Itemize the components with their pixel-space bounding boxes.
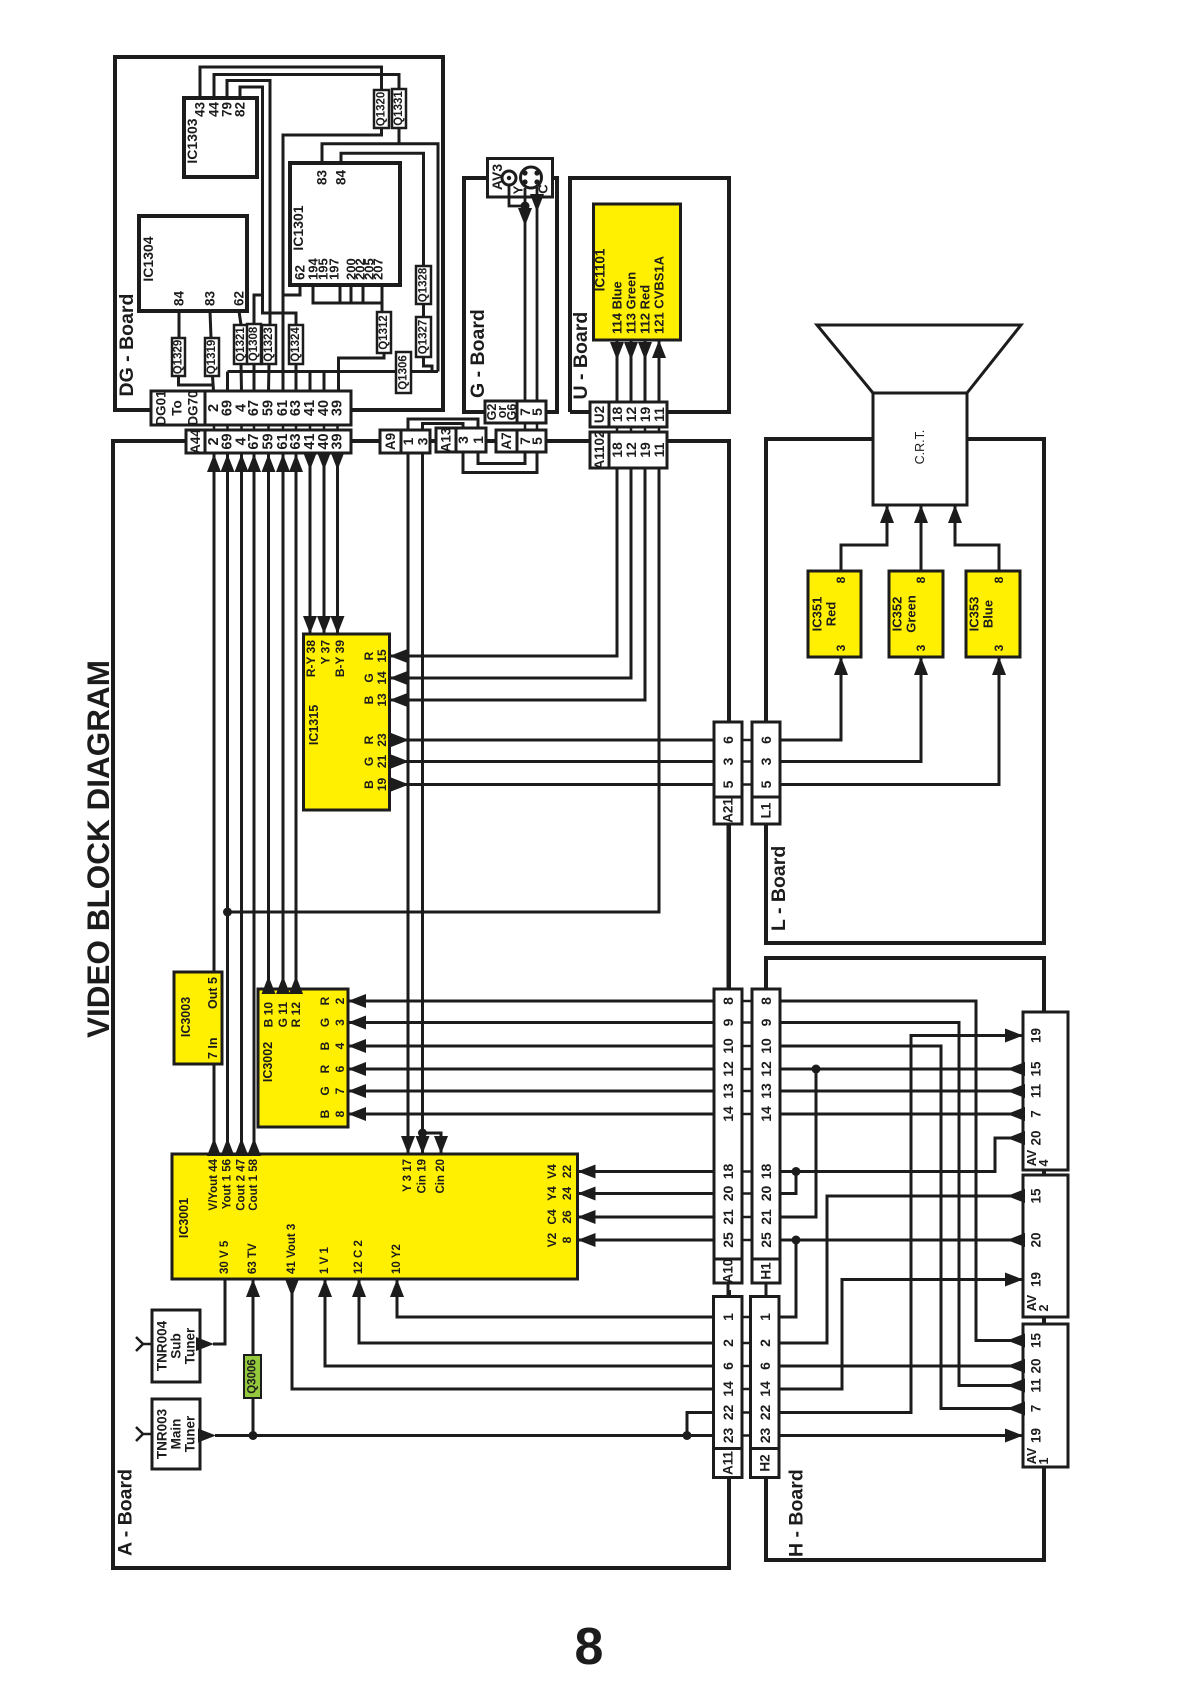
arrow down IC1101.112 <box>638 342 652 360</box>
wire A9.1-IC3001.17 <box>407 453 410 1154</box>
wire Cin20 branch <box>423 1133 442 1154</box>
transistor Q1308 <box>247 324 261 364</box>
svg-text:3: 3 <box>834 644 848 651</box>
arrow into IC353.3 <box>992 657 1006 675</box>
arrow into IC3001 pin 26 <box>578 1210 596 1224</box>
svg-text:G: G <box>318 1086 332 1095</box>
svg-text:6: 6 <box>720 736 736 744</box>
arrow into CRT green <box>914 505 928 523</box>
arrow into IC3001.17 <box>401 1136 415 1154</box>
wire row23 junction to A11.23 <box>253 1434 714 1437</box>
svg-text:3: 3 <box>758 757 774 765</box>
wire Q3006 to TNR junction <box>252 1398 255 1436</box>
svg-text:To: To <box>170 400 185 416</box>
connector A10 label box <box>714 1259 742 1283</box>
svg-text:6: 6 <box>757 1362 773 1370</box>
arrow into IC1315.13 <box>390 693 408 707</box>
svg-text:22: 22 <box>757 1405 773 1421</box>
wire IC3001.C2 to A11.2 <box>359 1279 714 1343</box>
svg-text:IC1101: IC1101 <box>593 248 608 291</box>
svg-text:A9: A9 <box>383 433 398 450</box>
svg-text:G 11: G 11 <box>276 1002 290 1028</box>
connector A1102 label box <box>590 432 609 468</box>
wire A10.8-IC3002 row <box>348 1113 714 1116</box>
wire H1-H2 column <box>765 1283 768 1297</box>
wire A21-L1 stubs <box>742 739 752 742</box>
svg-text:25: 25 <box>720 1232 736 1248</box>
wire H1.14 to AV4.7 <box>780 1113 1023 1116</box>
arrow out IC1315.21 <box>391 755 409 769</box>
arrow down out IC3001.41 <box>285 1279 299 1297</box>
svg-text:H - Board: H - Board <box>786 1469 808 1557</box>
wire DG01-A44 pin stubs <box>213 425 216 430</box>
arrow up out IC3002.11 <box>276 976 290 994</box>
svg-text:G: G <box>362 757 376 766</box>
wire L1.3 to IC352.3 <box>780 657 921 762</box>
ic IC353 Blue <box>966 571 1020 657</box>
wire A10.2-IC3002 row <box>348 1000 714 1003</box>
wire IC1303.82 to Q1308 <box>240 87 263 324</box>
svg-text:5: 5 <box>529 408 545 416</box>
svg-text:R: R <box>362 651 376 660</box>
ic IC1301 <box>290 163 400 285</box>
svg-text:3: 3 <box>992 644 1006 651</box>
svg-text:6: 6 <box>758 736 774 744</box>
arrow down AV3 C <box>530 194 544 212</box>
svg-text:Q1327: Q1327 <box>418 320 430 355</box>
svg-text:A13: A13 <box>439 427 454 452</box>
svg-text:Q1331: Q1331 <box>393 91 405 126</box>
svg-text:B-Y 39: B-Y 39 <box>333 640 347 677</box>
svg-text:R: R <box>362 735 376 744</box>
svg-text:113 Green: 113 Green <box>624 272 639 334</box>
wire H1.9 to AV1.11 <box>780 1023 1023 1386</box>
svg-text:Y 3 17: Y 3 17 <box>402 1159 414 1192</box>
arrow up into A44 at x254 <box>247 454 261 472</box>
svg-text:Out 5: Out 5 <box>206 977 220 1009</box>
svg-text:62: 62 <box>232 291 247 306</box>
connector A21 label box <box>714 797 742 824</box>
tuner TNR003 <box>152 1399 200 1469</box>
svg-text:IC1303: IC1303 <box>184 118 200 163</box>
svg-text:IC1304: IC1304 <box>140 236 156 281</box>
svg-text:C4: C4 <box>545 1209 559 1225</box>
wire IC1101.112-U2.19 <box>644 340 647 402</box>
svg-text:7: 7 <box>1029 1110 1044 1118</box>
wire A10.3-IC3002 row <box>348 1021 714 1024</box>
connector L1 pins box <box>752 722 780 797</box>
wire A10-IC3001 row 8 <box>578 1239 715 1242</box>
svg-text:43: 43 <box>193 102 208 118</box>
wire A44.69-IC3001.56 with CVBS tap <box>226 453 229 1154</box>
svg-text:41 Vout 3: 41 Vout 3 <box>286 1224 298 1274</box>
svg-text:30 V 5: 30 V 5 <box>219 1240 231 1274</box>
connector U2 pins box <box>609 402 667 427</box>
svg-text:20: 20 <box>1029 1358 1044 1373</box>
svg-text:9: 9 <box>758 1018 774 1026</box>
svg-text:Red: Red <box>824 602 839 627</box>
svg-text:15: 15 <box>1029 1333 1044 1349</box>
arrow down from A44 at x324 <box>317 452 331 470</box>
arrow out AV2.20 <box>1007 1233 1025 1247</box>
arrow into IC1315.38 <box>303 616 317 634</box>
wire A9.3-IC3001.19 <box>421 453 424 1154</box>
wire bracket A13.1-A7.7 <box>478 452 525 464</box>
connector A7 label box <box>496 430 517 452</box>
arrow into CRT red <box>880 505 894 523</box>
junction dot TV node <box>249 1431 258 1440</box>
connector A7 pins box <box>517 430 546 452</box>
svg-text:39: 39 <box>330 433 346 449</box>
arrow up into IC1101.121 <box>652 340 666 358</box>
svg-text:25: 25 <box>758 1232 774 1248</box>
svg-text:10: 10 <box>758 1038 774 1054</box>
wire CVBS row to A1102.11 <box>228 468 660 912</box>
wire H1.18 to AV4.20 <box>780 1138 1023 1172</box>
connector A44 pins box <box>205 430 351 453</box>
ic IC1315 <box>304 634 390 810</box>
svg-text:24: 24 <box>560 1187 574 1201</box>
wire A44.61-IC3002.11 <box>282 453 285 998</box>
arrow into IC352.3 <box>914 657 928 675</box>
wire net372 stub DG01.40 <box>323 372 326 392</box>
wire IC352.8 to CRT <box>920 505 923 571</box>
wire bracket A9.1-A13.1 <box>408 419 478 430</box>
arrow up out IC3001.58 <box>247 1138 261 1156</box>
arrow up into A44 at x296 <box>289 454 303 472</box>
svg-text:83: 83 <box>203 290 218 306</box>
connector AV4 box <box>1023 1012 1068 1170</box>
arrow out AV4.7 <box>1007 1107 1025 1121</box>
svg-text:11: 11 <box>651 407 667 422</box>
connector AV1 box <box>1023 1324 1068 1467</box>
arrow down from A44 at x337.5 <box>331 452 345 470</box>
wire A10.7-IC3002 row <box>348 1090 714 1093</box>
wire IC1304.62 to Q1321 <box>239 311 241 325</box>
arrow down AV3 Y <box>518 208 532 226</box>
arrow down IC1101.114 <box>610 342 624 360</box>
arrow up into IC3001.10 <box>390 1279 404 1297</box>
wire IC3003.7In-IC3001.44 <box>213 1064 216 1154</box>
arrow up out IC3002.12 <box>289 976 303 994</box>
arrow into IC3002 pin 7 <box>348 1084 366 1098</box>
wire H1.10 to AV1.7 <box>780 1046 1023 1409</box>
wire Q1323 to DG01.59 <box>267 364 271 391</box>
svg-text:8: 8 <box>575 1618 604 1676</box>
wire A44.4-IC3001.47 <box>240 453 243 1154</box>
svg-text:IC351: IC351 <box>810 597 825 632</box>
svg-text:23: 23 <box>375 733 389 747</box>
svg-text:12: 12 <box>758 1061 774 1077</box>
junction dot AV3 Y <box>521 202 530 211</box>
arrow up out IC3002.10 <box>262 976 276 994</box>
wire TNR004 to IC3001.V5 <box>213 1279 225 1344</box>
svg-text:B: B <box>362 695 376 704</box>
transistor Q1320 <box>374 90 389 128</box>
arrow into IC3002 pin 2 <box>348 994 366 1008</box>
svg-text:Y: Y <box>511 185 526 194</box>
ic IC3002 <box>258 989 348 1127</box>
svg-text:TNR003: TNR003 <box>155 1408 170 1459</box>
wire L1.5 to IC353.3 <box>780 657 999 785</box>
svg-text:13: 13 <box>758 1083 774 1099</box>
wire IC353.8 to CRT <box>955 505 999 571</box>
board A-Board outline <box>113 441 729 1568</box>
svg-text:26: 26 <box>560 1210 574 1224</box>
wire IC1304.83 to Q1319 <box>210 311 211 338</box>
transistor Q3006 <box>244 1355 261 1398</box>
connector L1 label box <box>752 797 780 824</box>
connector G2orG6 label box <box>485 401 517 423</box>
arrow into IC3002 pin 6 <box>348 1062 366 1076</box>
wire IC3001.V1 to A11.6 <box>325 1279 714 1366</box>
svg-text:VIDEO BLOCK DIAGRAM: VIDEO BLOCK DIAGRAM <box>80 660 116 1038</box>
arrow up out IC3001.47 <box>235 1138 249 1156</box>
wire G2-A7 stubs <box>524 423 527 430</box>
wire A11-H2 stubs <box>742 1316 751 1319</box>
svg-text:IC352: IC352 <box>890 597 905 632</box>
svg-text:Q1328: Q1328 <box>418 267 430 302</box>
svg-text:21: 21 <box>375 755 389 769</box>
svg-text:Yout 1 56: Yout 1 56 <box>222 1159 234 1209</box>
wire H1.12 to AV4.15 <box>780 1068 1023 1071</box>
wire Q1320 to DG01.61 <box>283 128 382 391</box>
wire IC3001.Y2 to A11.1 <box>397 1279 714 1317</box>
wire Q1329 to pin2 node <box>179 376 214 385</box>
svg-text:112 Red: 112 Red <box>638 285 653 334</box>
wire IC1303.44 to Q1331 <box>214 75 399 99</box>
wire Q1328 to Q1327 <box>422 304 425 317</box>
arrow into IC3002 pin 4 <box>348 1039 366 1053</box>
arrow into IC3001 pin 8 <box>578 1233 596 1247</box>
junction dot H1.12 branch <box>812 1065 821 1074</box>
arrow up into A44 at x268.5 <box>262 454 276 472</box>
wire AV3 rca to Y-node <box>509 185 525 206</box>
connector A10 pins box <box>714 989 742 1259</box>
svg-text:3: 3 <box>914 644 928 651</box>
svg-text:Q1324: Q1324 <box>290 327 302 362</box>
svg-text:197: 197 <box>327 258 342 280</box>
wire A1102.18-IC1315.15 <box>390 468 618 656</box>
arrow up into A44 at x227.5 <box>221 454 235 472</box>
svg-text:DG - Board: DG - Board <box>116 294 138 397</box>
wire A10-A11 column <box>727 1283 730 1297</box>
svg-text:6: 6 <box>333 1065 347 1072</box>
wire A44.67-IC3001.58 <box>253 453 256 1154</box>
svg-text:U2: U2 <box>592 406 607 423</box>
wire IC1304.84 to Q1329 <box>178 311 181 338</box>
svg-text:8: 8 <box>333 1110 347 1117</box>
svg-text:Cout 2 47: Cout 2 47 <box>236 1159 248 1211</box>
connector A11 pins box <box>714 1297 743 1449</box>
crt funnel <box>817 325 1021 393</box>
svg-text:21: 21 <box>758 1209 774 1225</box>
wire Q1319 to DG01.2 <box>213 376 214 391</box>
wire IC1101.113-U2.12 <box>630 340 633 402</box>
svg-text:14: 14 <box>720 1106 736 1122</box>
arrow out AV1.11 <box>1007 1379 1025 1393</box>
svg-text:2: 2 <box>757 1339 773 1347</box>
svg-text:15: 15 <box>1029 1061 1044 1077</box>
svg-text:B 10: B 10 <box>262 1002 276 1028</box>
svg-text:14: 14 <box>720 1381 736 1397</box>
wire A44.59-IC3002.10 <box>267 453 270 998</box>
svg-text:Q1312: Q1312 <box>378 315 390 350</box>
arrow out IC1315.23 <box>391 733 409 747</box>
wire A44.41-IC1315.38 <box>309 453 312 634</box>
svg-text:6: 6 <box>720 1362 736 1370</box>
arrow out TNR003 <box>198 1429 216 1443</box>
wire A44.39-IC1315.39 <box>336 453 339 634</box>
wire Q1312 to DG01.39 <box>339 353 385 391</box>
svg-text:A11: A11 <box>720 1451 735 1476</box>
svg-text:15: 15 <box>375 649 389 663</box>
wire IC1301.83 to node372 <box>322 144 438 372</box>
svg-text:11: 11 <box>651 442 667 457</box>
arrow out AV1.7 <box>1007 1402 1025 1416</box>
svg-text:A10: A10 <box>721 1259 736 1284</box>
transistor Q1328 <box>416 266 431 304</box>
svg-text:5: 5 <box>720 780 736 788</box>
ic IC3003 <box>174 972 222 1064</box>
svg-text:DG70: DG70 <box>186 390 201 425</box>
svg-text:20: 20 <box>720 1186 736 1202</box>
wire Q1321 to DG01.4 <box>240 364 244 391</box>
junction dot H1.18 branch <box>792 1167 801 1176</box>
svg-text:20: 20 <box>1029 1232 1044 1247</box>
svg-text:L - Board: L - Board <box>768 846 790 931</box>
svg-text:G: G <box>362 673 376 682</box>
board U-Board outline <box>570 178 729 412</box>
board L-Board outline <box>766 439 1044 943</box>
svg-text:1: 1 <box>1037 1457 1051 1464</box>
wire Q1331 tap to 83-line <box>398 128 401 144</box>
svg-text:A21: A21 <box>721 798 736 823</box>
rca jack of AV3 <box>502 171 516 185</box>
ic IC3001 <box>172 1154 578 1279</box>
svg-text:1: 1 <box>470 436 486 444</box>
svg-text:Cin 19: Cin 19 <box>417 1159 429 1194</box>
arrow out AV4.11 <box>1007 1084 1025 1098</box>
svg-text:84: 84 <box>172 290 187 306</box>
svg-text:G - Board: G - Board <box>467 309 489 398</box>
svg-text:Tuner: Tuner <box>183 1327 198 1364</box>
svg-text:H1: H1 <box>759 1262 774 1280</box>
wire TNR003 to junction <box>215 1434 253 1437</box>
svg-text:Q1308: Q1308 <box>248 326 260 361</box>
wire A44.63-IC3002.12 <box>295 453 298 998</box>
svg-text:14: 14 <box>375 671 389 685</box>
svg-text:4: 4 <box>333 1042 347 1049</box>
junction dot H1.25 branch <box>792 1236 801 1245</box>
arrow up into A44 at x283 <box>276 454 290 472</box>
svg-text:IC3001: IC3001 <box>177 1198 191 1238</box>
ic IC351 Red <box>808 571 861 657</box>
svg-text:C.R.T.: C.R.T. <box>913 430 927 465</box>
connector H1 label box <box>752 1259 780 1283</box>
svg-text:Q1321: Q1321 <box>235 327 247 362</box>
connector A13 label box <box>436 428 456 452</box>
svg-text:18: 18 <box>758 1164 774 1180</box>
arrow up out IC3001.44 <box>207 1138 221 1156</box>
arrow into IC3001 pin 24 <box>578 1187 596 1201</box>
arrow into IC3001.19 <box>416 1136 430 1154</box>
svg-text:L1: L1 <box>759 802 774 818</box>
svg-text:13: 13 <box>720 1083 736 1099</box>
wire A10-IC3001 row 26 <box>578 1216 715 1219</box>
wire branch to Q1324 <box>263 295 297 325</box>
svg-text:B: B <box>318 1109 332 1118</box>
svg-text:Green: Green <box>904 595 919 633</box>
wire IC1301 bottom pins bracket <box>313 285 382 303</box>
wire IC1315.19-A21.5 <box>390 783 715 786</box>
svg-text:B: B <box>362 780 376 789</box>
wire IC1301.62 tap <box>283 285 300 295</box>
crt C.R.T. box <box>873 393 967 505</box>
svideo jack of AV3 <box>521 167 542 188</box>
svg-text:39: 39 <box>330 400 346 416</box>
svg-text:83: 83 <box>315 170 330 186</box>
svg-text:8: 8 <box>992 576 1006 583</box>
wire A10.4-IC3002 row <box>348 1045 714 1048</box>
connector AV3 box <box>488 159 553 198</box>
svg-text:22: 22 <box>560 1165 574 1179</box>
svg-text:R-Y 38: R-Y 38 <box>304 640 318 677</box>
junction dot row23 branch <box>683 1431 692 1440</box>
svg-text:19: 19 <box>1029 1428 1044 1443</box>
svg-text:3: 3 <box>415 437 431 445</box>
svg-text:20: 20 <box>758 1186 774 1202</box>
wire H1.8 to AV1.15 <box>780 1001 1023 1341</box>
arrow into AV1.19 <box>1005 1429 1023 1443</box>
arrow into IC3002 pin 3 <box>348 1016 366 1030</box>
svg-text:7: 7 <box>333 1087 347 1094</box>
connector A11 label box <box>714 1449 743 1478</box>
svg-text:14: 14 <box>757 1381 773 1397</box>
svg-text:19: 19 <box>1029 1272 1044 1287</box>
arrow out TNR004 <box>196 1337 214 1351</box>
transistor Q1329 <box>172 338 185 376</box>
wire A10-IC3001 row 24 <box>578 1192 715 1195</box>
svg-text:Y 37: Y 37 <box>319 640 333 665</box>
wire A44.40-IC1315.37 <box>323 453 326 634</box>
svg-text:8: 8 <box>720 997 736 1005</box>
arrow out AV1.20 <box>1007 1359 1025 1373</box>
svg-text:18: 18 <box>720 1164 736 1180</box>
transistor Q1319 <box>205 338 219 376</box>
wire IC1301.84 to Q1328 <box>341 153 424 266</box>
svg-text:12: 12 <box>720 1061 736 1077</box>
svg-text:19: 19 <box>375 778 389 792</box>
svg-text:1 V 1: 1 V 1 <box>319 1247 331 1274</box>
svg-text:Blue: Blue <box>981 600 996 628</box>
wire H1.13 to AV4.11 <box>780 1090 1023 1093</box>
wire bracket A13.3-A7.5 <box>463 452 537 473</box>
svg-text:Sub: Sub <box>169 1333 184 1359</box>
svg-text:Q1306: Q1306 <box>398 355 410 390</box>
svg-text:V2: V2 <box>545 1232 559 1247</box>
arrow into IC1315.14 <box>390 671 408 685</box>
wire net372 stub DG01.41 <box>309 372 312 392</box>
transistor Q1331 <box>392 89 406 128</box>
svg-text:A - Board: A - Board <box>115 1469 137 1556</box>
wire H2.2 to AV2.15 <box>779 1196 1023 1343</box>
svg-text:Main: Main <box>169 1419 184 1450</box>
connector A9 label box <box>380 430 401 453</box>
svg-text:2: 2 <box>1037 1304 1051 1311</box>
svg-text:7: 7 <box>1029 1405 1044 1413</box>
connector DG01-DG70 label box <box>151 391 205 425</box>
